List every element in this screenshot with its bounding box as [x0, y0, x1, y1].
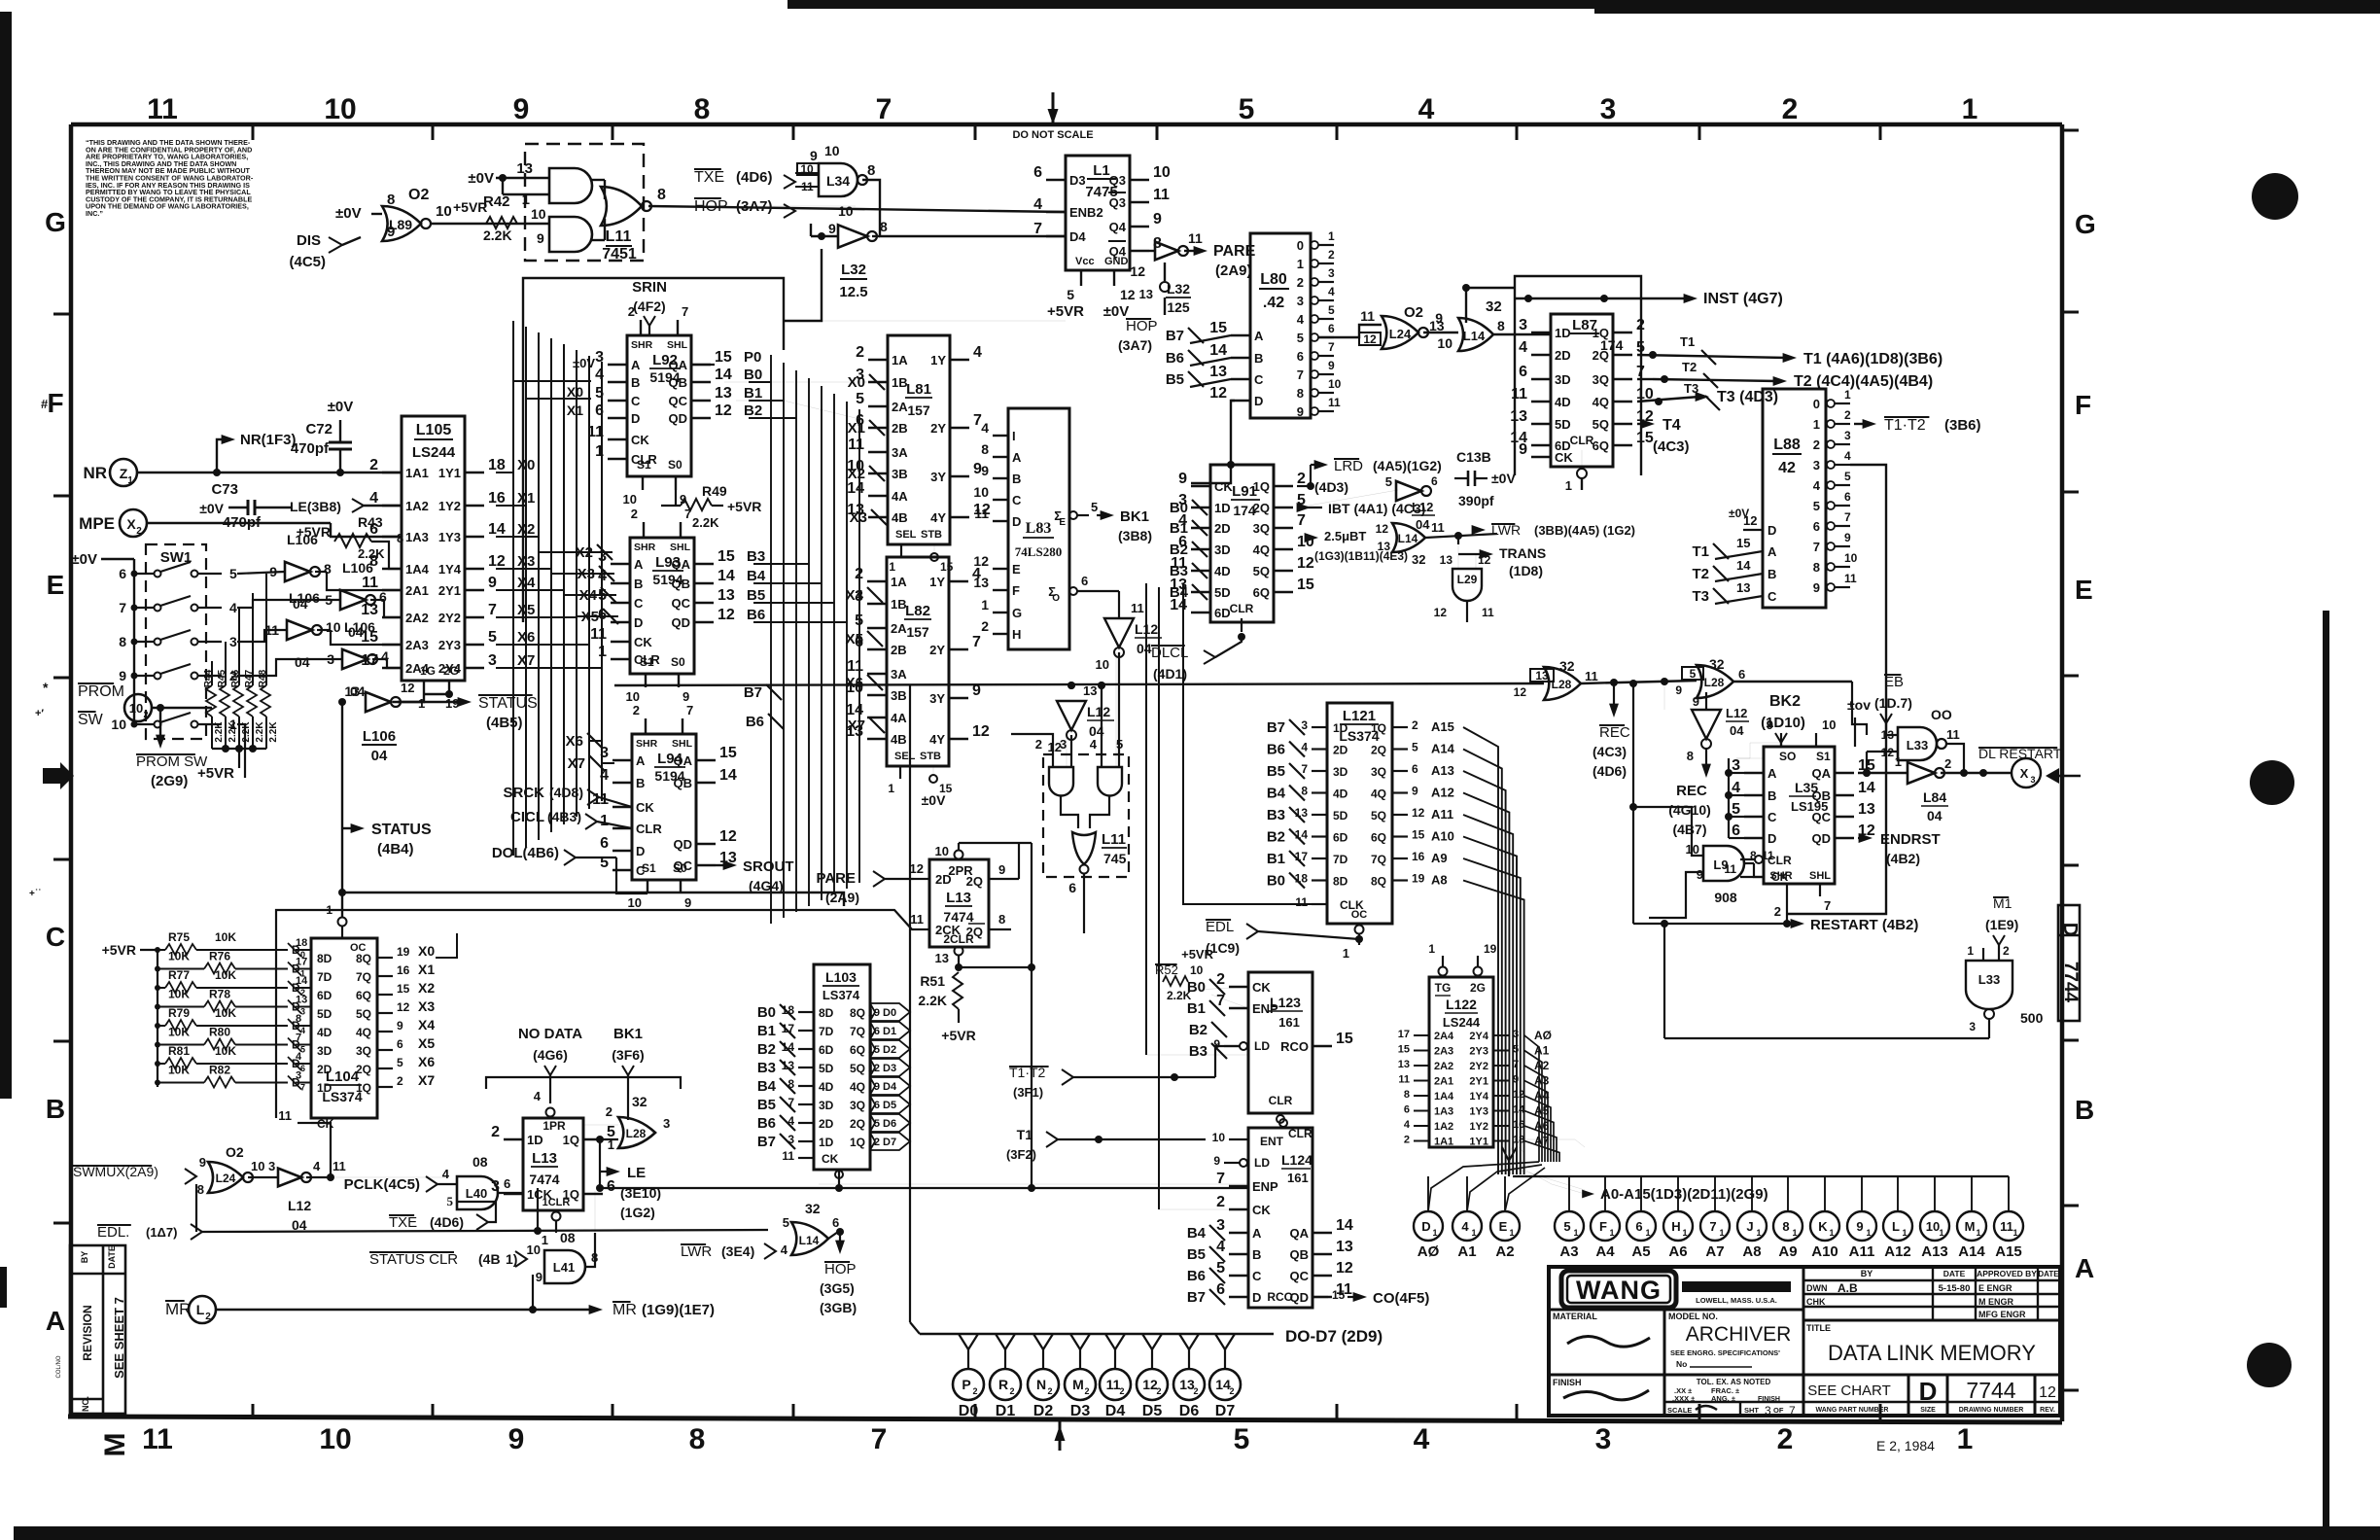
IC L93 5194 [630, 538, 694, 674]
svg-text:B6: B6 [1267, 742, 1285, 758]
svg-text:R51: R51 [920, 973, 945, 989]
svg-text:LS244: LS244 [1443, 1015, 1481, 1030]
svg-text:TXE: TXE [389, 1214, 417, 1231]
svg-text:FINISH: FINISH [1553, 1378, 1582, 1387]
IC L13 7474 bottom-left [523, 1118, 583, 1210]
svg-text:A9: A9 [1431, 851, 1448, 865]
svg-text:STB: STB [921, 529, 942, 541]
svg-text:(3E4): (3E4) [721, 1243, 754, 1259]
svg-text:7: 7 [972, 634, 981, 650]
svg-text:A13: A13 [1921, 1243, 1948, 1260]
svg-text:1: 1 [1967, 944, 1974, 958]
svg-text:L33: L33 [1907, 738, 1928, 752]
svg-text:32: 32 [1412, 552, 1425, 567]
svg-text:DO-D7 (2D9): DO-D7 (2D9) [1285, 1327, 1382, 1346]
svg-text:E: E [1499, 1219, 1508, 1234]
svg-text:2: 2 [1216, 1194, 1225, 1210]
svg-text:8Q: 8Q [850, 1006, 865, 1020]
svg-text:B: B [2075, 1095, 2094, 1125]
svg-text:R78: R78 [209, 988, 230, 1001]
svg-text:08: 08 [560, 1230, 576, 1245]
svg-text:4: 4 [369, 490, 378, 507]
svg-text:5Q: 5Q [356, 1007, 371, 1021]
svg-text:9: 9 [998, 862, 1005, 877]
svg-text:±0V: ±0V [71, 551, 97, 568]
wire L11 to L1 ENB2 [648, 206, 1066, 212]
svg-text:L24: L24 [1389, 327, 1412, 341]
svg-text:7: 7 [119, 600, 126, 615]
svg-text:RESTART (4B2): RESTART (4B2) [1810, 917, 1918, 933]
svg-text:LOWELL, MASS. U.S.A.: LOWELL, MASS. U.S.A. [1696, 1296, 1777, 1305]
svg-text:+5VR: +5VR [727, 499, 761, 514]
svg-text:15: 15 [1412, 828, 1425, 842]
svg-text:QC: QC [674, 858, 693, 873]
dashed box L11 745 [1043, 754, 1129, 877]
svg-text:L11: L11 [1102, 831, 1126, 848]
svg-text:L11: L11 [606, 228, 632, 245]
svg-text:1: 1 [1902, 1228, 1907, 1238]
svg-text:10K: 10K [215, 1044, 236, 1058]
svg-text:L28: L28 [1704, 676, 1725, 689]
svg-text:2: 2 [397, 1074, 403, 1088]
svg-text:9: 9 [397, 1019, 403, 1032]
svg-text:14: 14 [715, 367, 732, 383]
svg-text:3Y: 3Y [929, 691, 945, 706]
svg-text:(4A5)(1G2): (4A5)(1G2) [1373, 458, 1442, 473]
svg-text:(4F2): (4F2) [633, 298, 665, 314]
svg-text:1A: 1A [891, 575, 907, 589]
svg-text:1Y: 1Y [930, 353, 946, 367]
svg-text:L106: L106 [363, 728, 396, 745]
svg-text:(4D6): (4D6) [430, 1214, 464, 1230]
svg-text:4: 4 [296, 1051, 302, 1063]
svg-text:04: 04 [1730, 723, 1744, 738]
svg-text:L89: L89 [389, 217, 412, 232]
svg-text:13: 13 [1736, 580, 1750, 595]
svg-text:1: 1 [1719, 1228, 1724, 1238]
svg-text:L24: L24 [216, 1172, 236, 1185]
svg-text:2: 2 [1047, 1386, 1052, 1396]
svg-text:2Y1: 2Y1 [438, 583, 461, 598]
svg-text:B5: B5 [757, 1097, 776, 1113]
svg-text:CLR: CLR [1269, 1094, 1293, 1107]
svg-text:13: 13 [973, 575, 989, 590]
svg-text:X0: X0 [418, 943, 435, 959]
svg-text:PROM: PROM [78, 683, 124, 700]
svg-text:10: 10 [326, 619, 341, 635]
svg-text:SEL: SEL [895, 529, 917, 541]
svg-text:2: 2 [1229, 1386, 1234, 1396]
svg-text:R48: R48 [258, 669, 268, 687]
svg-text:T3 (4D3): T3 (4D3) [1717, 389, 1778, 405]
svg-text:08: 08 [472, 1154, 488, 1170]
svg-text:2: 2 [2003, 944, 2010, 958]
svg-text:3: 3 [1297, 294, 1304, 308]
svg-text:L28: L28 [1552, 678, 1572, 691]
svg-text:TG: TG [1435, 981, 1452, 995]
wire OC branch y918 [342, 892, 844, 906]
svg-text:B: B [1767, 567, 1776, 581]
svg-text:9: 9 [508, 1423, 525, 1455]
svg-text:12: 12 [719, 828, 737, 845]
svg-text:B6: B6 [757, 1115, 776, 1132]
svg-text:UPON THE DEMAND OF WANG LABORA: UPON THE DEMAND OF WANG LABORATORIES, [86, 202, 249, 211]
svg-text:L29: L29 [1457, 573, 1478, 586]
svg-text:6Q: 6Q [850, 1043, 865, 1057]
IC L122 LS244 [1429, 977, 1493, 1147]
svg-text:R46: R46 [230, 669, 241, 687]
scan edge right black line [2323, 611, 2329, 1540]
svg-text:8: 8 [1497, 318, 1505, 333]
svg-text:EDL: EDL [1206, 919, 1234, 935]
svg-text:2A2: 2A2 [1434, 1061, 1453, 1072]
svg-text:B: B [46, 1094, 65, 1124]
INST output [1641, 297, 1688, 299]
svg-text:11: 11 [1398, 1074, 1410, 1086]
svg-text:PARE: PARE [816, 870, 856, 887]
svg-text:B: B [631, 375, 640, 390]
svg-text:(2G9): (2G9) [151, 773, 188, 789]
svg-text:4Q: 4Q [1253, 542, 1270, 557]
svg-text:4: 4 [1414, 1423, 1430, 1455]
svg-text:8: 8 [981, 441, 989, 457]
svg-text:TRANS: TRANS [1499, 545, 1546, 561]
svg-text:9: 9 [1856, 1219, 1863, 1234]
svg-text:1: 1 [1645, 1228, 1650, 1238]
svg-text:.XXX ±: .XXX ± [1672, 1394, 1695, 1403]
svg-text:1: 1 [1756, 1228, 1761, 1238]
svg-text:6: 6 [1404, 1104, 1410, 1116]
svg-text:9: 9 [1693, 694, 1699, 709]
svg-text:10: 10 [623, 492, 637, 507]
svg-text:5D: 5D [819, 1062, 834, 1075]
svg-text:14: 14 [296, 975, 308, 987]
svg-text:13: 13 [717, 587, 735, 604]
svg-text:B1: B1 [1170, 520, 1188, 537]
svg-text:8: 8 [1782, 1219, 1789, 1234]
svg-text:(4G6): (4G6) [533, 1047, 568, 1063]
svg-text:B: B [634, 577, 643, 591]
svg-text:X6: X6 [418, 1054, 435, 1069]
svg-text:2D: 2D [317, 1063, 332, 1076]
svg-text:±0V: ±0V [1729, 507, 1749, 520]
svg-text:A8: A8 [1742, 1243, 1761, 1260]
svg-text:8: 8 [1813, 560, 1820, 575]
svg-text:+5VR: +5VR [197, 765, 234, 782]
svg-text:7: 7 [1297, 367, 1304, 382]
svg-text:B1: B1 [757, 1023, 776, 1039]
svg-text:9: 9 [1813, 580, 1820, 595]
IC L91 174 [1210, 465, 1274, 622]
svg-text:QC: QC [669, 394, 688, 408]
svg-text:470pf: 470pf [223, 514, 262, 531]
svg-text:3: 3 [1813, 458, 1820, 472]
svg-text:7Q: 7Q [850, 1025, 865, 1038]
svg-text:L12: L12 [288, 1198, 311, 1213]
svg-text:A1: A1 [1457, 1243, 1476, 1260]
svg-text:D4: D4 [1069, 229, 1086, 244]
svg-text:1Y2: 1Y2 [438, 499, 461, 513]
svg-text:12: 12 [2039, 1384, 2056, 1401]
svg-text:13: 13 [782, 1059, 795, 1072]
svg-text:3: 3 [229, 634, 237, 649]
svg-text:745: 745 [1103, 851, 1127, 866]
svg-text:2: 2 [1009, 1386, 1014, 1396]
svg-text:AØ: AØ [1534, 1029, 1552, 1042]
svg-text:18: 18 [296, 937, 307, 949]
svg-text:O2: O2 [408, 187, 429, 203]
svg-text:6: 6 [1635, 1219, 1642, 1234]
svg-text:42: 42 [1778, 460, 1796, 476]
svg-text:12: 12 [1120, 287, 1136, 302]
svg-text:4: 4 [534, 1089, 542, 1103]
svg-text:L12: L12 [1726, 706, 1747, 720]
svg-text:DLCL: DLCL [1151, 645, 1188, 661]
svg-text:1: 1 [981, 597, 989, 612]
svg-text:BK1: BK1 [1120, 508, 1149, 525]
svg-text:A13: A13 [1431, 763, 1454, 778]
svg-text:5: 5 [1844, 470, 1851, 483]
svg-text:DIS: DIS [297, 232, 321, 249]
svg-text:9: 9 [1767, 717, 1773, 732]
svg-text:D: D [1767, 831, 1776, 846]
svg-text:7: 7 [1844, 510, 1851, 524]
svg-text:T1: T1 [1017, 1127, 1033, 1142]
svg-text:8: 8 [867, 162, 875, 179]
svg-text:8: 8 [1750, 849, 1757, 862]
svg-text:R77: R77 [168, 968, 190, 982]
svg-text:1: 1 [1432, 1228, 1437, 1238]
svg-text:*: * [43, 680, 49, 695]
A0-A15 label [1502, 1147, 1517, 1161]
svg-text:±0V: ±0V [328, 399, 354, 415]
svg-text:14: 14 [719, 767, 737, 784]
svg-text:C: C [634, 596, 644, 611]
svg-text:R44: R44 [203, 669, 214, 687]
svg-text:3Q: 3Q [1371, 765, 1386, 779]
svg-text:A11: A11 [1431, 807, 1453, 822]
svg-text:11: 11 [1106, 1377, 1121, 1392]
svg-text:9: 9 [199, 1155, 206, 1170]
svg-text:DATE: DATE [1943, 1269, 1966, 1278]
svg-text:E: E [1059, 517, 1066, 528]
svg-text:13: 13 [1209, 364, 1227, 380]
svg-text:A0-A15(1D3)(2D11)(2G9): A0-A15(1D3)(2D11)(2G9) [1600, 1186, 1768, 1203]
svg-text:5D: 5D [1214, 585, 1231, 600]
svg-text:4Q: 4Q [850, 1080, 865, 1094]
svg-text:4: 4 [1813, 478, 1821, 493]
svg-text:T3: T3 [1684, 381, 1698, 396]
svg-text:11: 11 [848, 437, 864, 453]
svg-text:B6: B6 [746, 714, 764, 730]
svg-text:10: 10 [1190, 963, 1204, 977]
svg-text:REC: REC [1599, 724, 1630, 741]
svg-text:SO: SO [1779, 750, 1796, 763]
svg-text:±0V: ±0V [468, 170, 494, 187]
svg-text:A: A [1012, 450, 1022, 465]
svg-text:1Q: 1Q [1592, 326, 1609, 340]
svg-text:T2 (4C4)(4A5)(4B4): T2 (4C4)(4A5)(4B4) [1794, 373, 1933, 390]
svg-text:LD: LD [1254, 1156, 1270, 1170]
svg-text:2: 2 [1297, 471, 1306, 487]
svg-text:7: 7 [686, 703, 693, 717]
svg-text:15: 15 [1297, 577, 1314, 593]
svg-text:L106: L106 [342, 560, 373, 576]
svg-text:A14: A14 [1958, 1243, 1985, 1260]
svg-text:D: D [1767, 523, 1776, 538]
svg-text:L83: L83 [1026, 520, 1052, 537]
svg-text:2.2K: 2.2K [358, 546, 385, 561]
svg-text:(3GB): (3GB) [820, 1300, 857, 1315]
svg-text:1Q: 1Q [1371, 721, 1386, 735]
svg-text:2A: 2A [892, 400, 908, 414]
svg-text:D0: D0 [883, 1007, 896, 1019]
svg-text:X0: X0 [848, 374, 865, 391]
svg-text:T1: T1 [1692, 543, 1709, 560]
svg-text:10: 10 [1437, 335, 1452, 351]
svg-text:18: 18 [782, 1003, 795, 1017]
svg-text:2A1: 2A1 [405, 583, 429, 598]
svg-text:A: A [636, 753, 646, 768]
svg-text:(1E9): (1E9) [1985, 917, 2018, 932]
svg-text:1: 1 [542, 1233, 548, 1247]
svg-text:10: 10 [1926, 1219, 1940, 1234]
D0-D7 connector row [910, 1322, 920, 1334]
svg-text:5Q: 5Q [1371, 809, 1386, 822]
svg-text:REV.: REV. [2040, 1407, 2055, 1414]
svg-text:5D: 5D [1555, 417, 1571, 432]
svg-text:2A3: 2A3 [1434, 1046, 1453, 1058]
svg-text:11: 11 [1131, 601, 1144, 615]
svg-text:B7: B7 [1166, 328, 1184, 344]
svg-text:ENT: ENT [1260, 1135, 1284, 1148]
svg-text:3Q: 3Q [1592, 372, 1609, 387]
svg-text:1B: 1B [891, 597, 907, 612]
svg-text:(4D6): (4D6) [1592, 763, 1627, 779]
svg-text:2.2K: 2.2K [241, 721, 252, 743]
T1 T2 T3 outputs [1637, 355, 1787, 358]
svg-text:EDL.: EDL. [97, 1224, 129, 1241]
svg-text:T1·T2: T1·T2 [1884, 417, 1926, 434]
svg-text:QD: QD [674, 837, 693, 852]
svg-text:WANG: WANG [1576, 1276, 1662, 1305]
svg-text:1: 1 [1813, 417, 1820, 432]
svg-text:L40: L40 [466, 1186, 487, 1201]
svg-text:15: 15 [715, 349, 732, 366]
svg-text:O: O [1052, 593, 1060, 604]
svg-text:L14: L14 [1398, 532, 1418, 545]
svg-text:O2: O2 [1404, 304, 1423, 321]
svg-text:2Y1: 2Y1 [1469, 1076, 1488, 1088]
svg-text:7: 7 [1216, 1171, 1225, 1187]
wire pare loop [959, 842, 1032, 844]
svg-text:6: 6 [1844, 490, 1851, 504]
svg-text:2: 2 [205, 1312, 211, 1322]
svg-text:1PR: 1PR [542, 1119, 566, 1133]
svg-text:1: 1 [2012, 1228, 2017, 1238]
T1.T2 output [1854, 423, 1867, 425]
svg-text:9: 9 [513, 93, 530, 125]
svg-text:X1: X1 [567, 402, 583, 418]
svg-text:L105: L105 [416, 422, 452, 438]
svg-text:B7: B7 [744, 684, 762, 701]
svg-text:8: 8 [880, 219, 888, 234]
svg-text:2B: 2B [891, 643, 907, 657]
svg-text:±0V: ±0V [335, 205, 362, 222]
svg-text:SHR: SHR [636, 738, 658, 750]
svg-text:R82: R82 [209, 1064, 230, 1077]
svg-text:1Q: 1Q [850, 1136, 865, 1149]
svg-text:8: 8 [1297, 386, 1304, 401]
svg-text:3: 3 [2030, 775, 2035, 785]
svg-text:(4D3): (4D3) [1314, 479, 1348, 495]
svg-text:161: 161 [1278, 1015, 1300, 1030]
svg-text:Vcc: Vcc [1075, 256, 1095, 267]
svg-text:L28: L28 [626, 1127, 647, 1140]
svg-text:(3G5): (3G5) [820, 1280, 855, 1296]
svg-text:12: 12 [1363, 332, 1377, 346]
svg-text:R43: R43 [358, 514, 383, 530]
svg-text:0: 0 [1813, 397, 1820, 411]
svg-text:9: 9 [1675, 683, 1682, 697]
svg-text:7Q: 7Q [356, 970, 371, 984]
svg-text:B: B [1012, 472, 1021, 486]
svg-text:2A2: 2A2 [405, 611, 429, 625]
svg-text:(2A9): (2A9) [825, 890, 859, 905]
svg-text:1A1: 1A1 [405, 466, 429, 480]
svg-text:ARCHIVER: ARCHIVER [1686, 1323, 1792, 1346]
svg-text:4B: 4B [892, 510, 908, 525]
svg-text:(4C5): (4C5) [289, 254, 326, 270]
svg-text:15: 15 [397, 982, 410, 996]
svg-text:8: 8 [119, 634, 126, 649]
L88 output wire right [1787, 465, 1886, 914]
svg-text:L124: L124 [1281, 1152, 1312, 1168]
svg-text:2.2K: 2.2K [692, 515, 719, 530]
svg-text:X7: X7 [848, 717, 865, 734]
svg-text:3: 3 [663, 1116, 670, 1131]
svg-text:6: 6 [832, 1215, 839, 1230]
svg-text:16: 16 [397, 963, 410, 977]
svg-text:15: 15 [1636, 430, 1654, 446]
svg-text:(4C3): (4C3) [1592, 744, 1627, 759]
svg-text:INST (4G7): INST (4G7) [1703, 291, 1783, 307]
svg-text:7: 7 [684, 507, 691, 521]
svg-text:CK: CK [1252, 980, 1271, 995]
svg-text:12: 12 [1434, 606, 1448, 619]
svg-text:3: 3 [268, 1159, 275, 1173]
svg-text:B6: B6 [747, 607, 765, 623]
svg-text:SCALE: SCALE [1667, 1406, 1692, 1415]
svg-text:D7: D7 [883, 1137, 896, 1148]
svg-text:X0: X0 [567, 384, 583, 400]
svg-text:D2: D2 [883, 1044, 896, 1056]
svg-text:X7: X7 [418, 1072, 435, 1088]
svg-text:16: 16 [1412, 850, 1425, 863]
svg-text:2G: 2G [1470, 981, 1486, 995]
svg-text:X3: X3 [850, 509, 867, 526]
svg-text:4Q: 4Q [356, 1026, 371, 1039]
svg-text:L81: L81 [906, 381, 931, 398]
svg-text:04: 04 [1416, 517, 1430, 532]
svg-text:14: 14 [1736, 558, 1751, 573]
title block [1549, 1267, 2060, 1416]
svg-text:13: 13 [1336, 1239, 1353, 1255]
svg-text:G: G [2075, 209, 2096, 239]
svg-text:WANG PART NUMBER: WANG PART NUMBER [1816, 1407, 1889, 1414]
svg-text:10: 10 [111, 717, 126, 732]
svg-text:4: 4 [1418, 93, 1435, 125]
